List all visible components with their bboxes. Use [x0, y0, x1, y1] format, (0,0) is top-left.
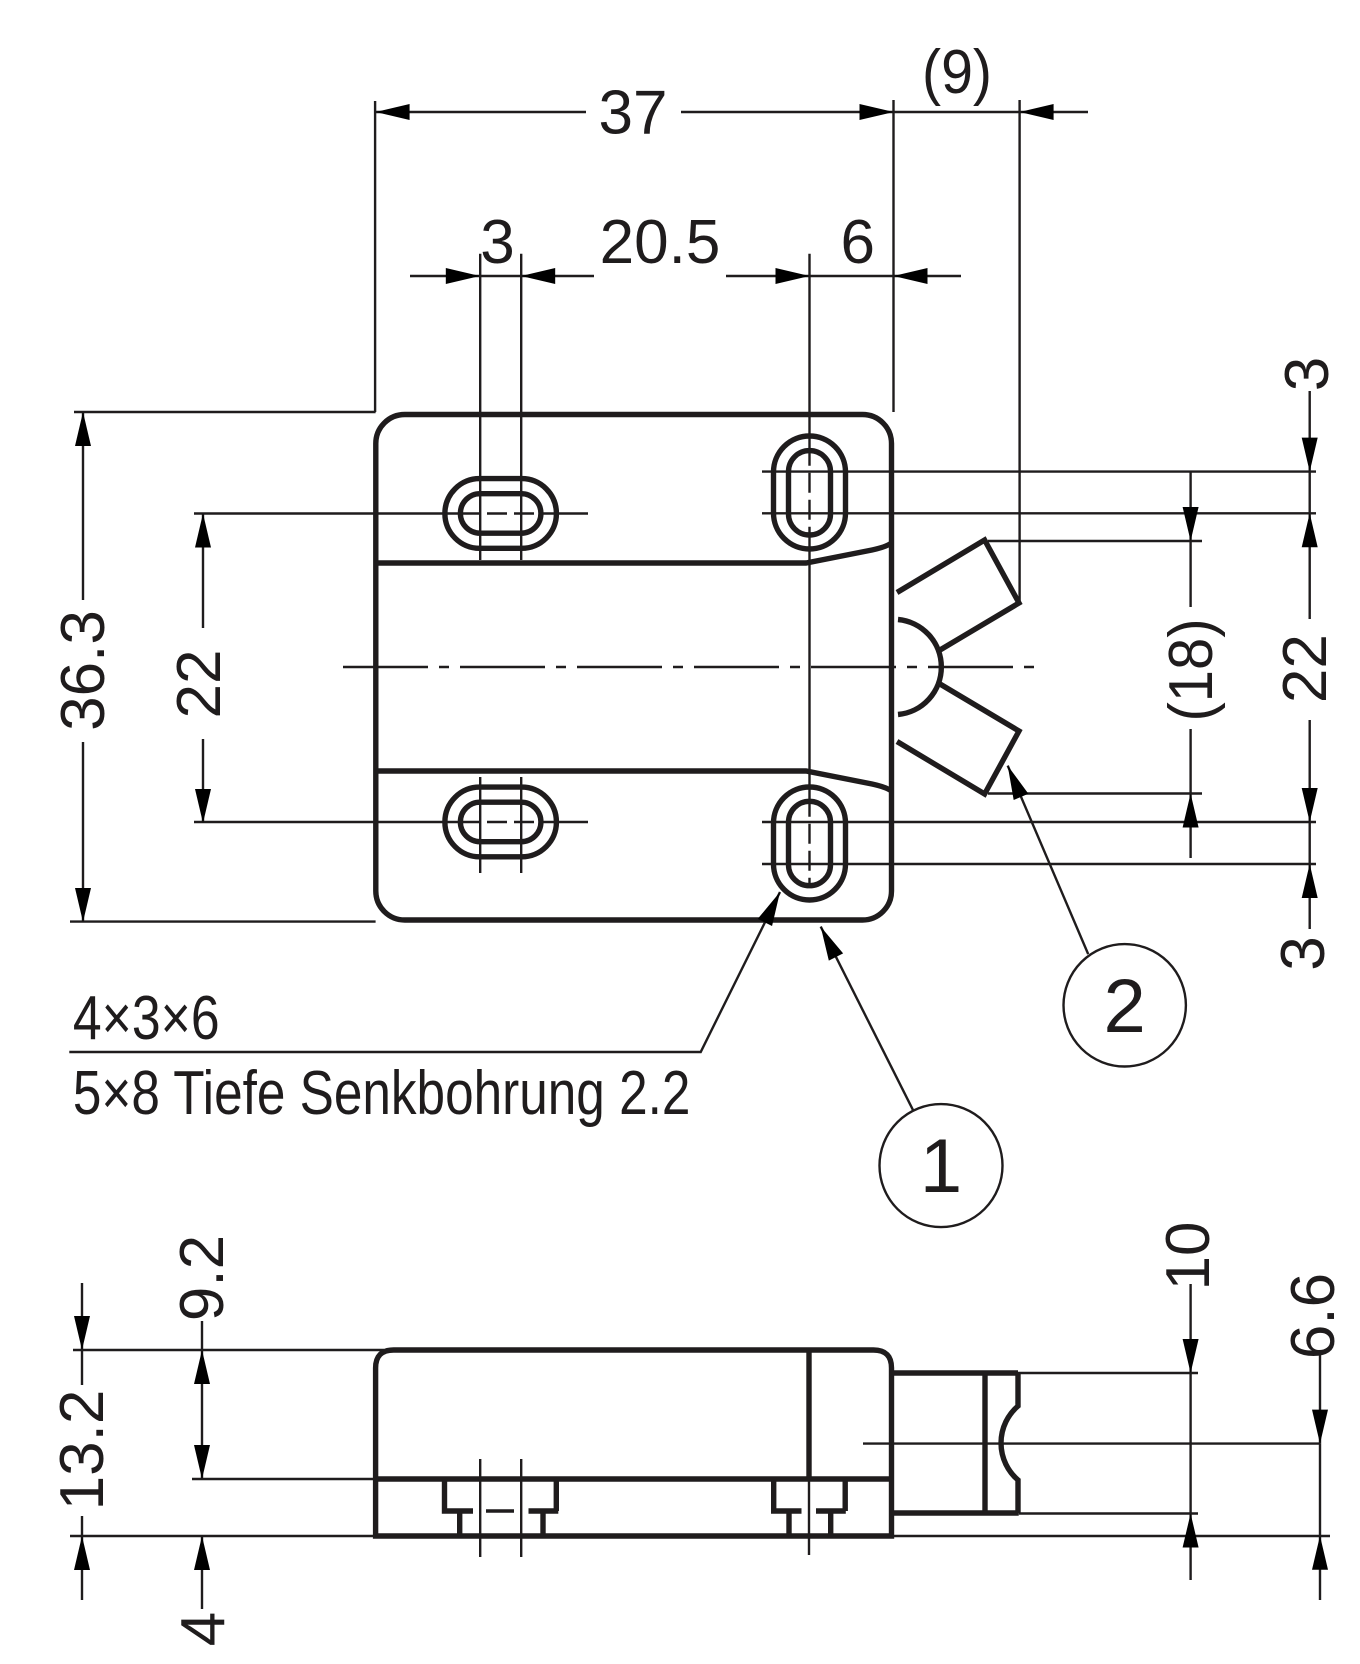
slot bottom-left inner	[460, 802, 541, 842]
left foot right hook	[529, 1479, 559, 1536]
foot centerline left b	[520, 1459, 522, 1557]
centerline left top oval	[194, 512, 588, 514]
slot top-right inner	[789, 451, 831, 535]
vertical centerline right slots	[808, 254, 810, 888]
dimension (9)	[894, 38, 1089, 120]
SIDEVIEW	[48, 1222, 1348, 1647]
svg-text:2: 2	[1104, 964, 1146, 1049]
slot bottom-left counterbore	[445, 787, 557, 857]
svg-text:3: 3	[1269, 936, 1338, 970]
svg-text:3: 3	[1273, 357, 1342, 391]
horizontal centerline	[343, 666, 1040, 668]
dimension 22 left	[165, 514, 234, 824]
dimension 3 top	[410, 208, 521, 284]
extension line slot cap left top	[479, 254, 481, 560]
svg-text:20.5: 20.5	[600, 208, 721, 277]
svg-text:1: 1	[920, 1124, 962, 1209]
body outline top view	[376, 415, 892, 921]
svg-text:9.2: 9.2	[168, 1235, 237, 1321]
callout circle 1	[814, 923, 1003, 1227]
dimension 20.5	[521, 208, 809, 284]
extension line side top	[73, 1349, 384, 1351]
extension line F	[762, 863, 1316, 865]
plunger right edge with concave notch	[1001, 1373, 1018, 1513]
latch boss arc	[898, 620, 941, 715]
body outline side view	[376, 1350, 892, 1536]
left foot left hook	[445, 1479, 474, 1511]
extension line A	[762, 470, 1316, 472]
svg-text:37: 37	[599, 79, 668, 148]
dimension 37	[376, 79, 894, 148]
dimension 3 right top	[1273, 357, 1342, 472]
extension line plunger bottom	[1019, 1512, 1198, 1514]
extension line 36.3 bottom	[70, 920, 376, 922]
extension line base top left	[192, 1478, 377, 1480]
plunger face line	[982, 1373, 987, 1513]
extension line bottom left	[70, 1535, 376, 1537]
extension line slot cap right top	[520, 254, 522, 560]
foot centerline left a	[479, 1459, 481, 1557]
svg-text:10: 10	[1154, 1222, 1223, 1291]
svg-text:13.2: 13.2	[48, 1390, 117, 1511]
channel bottom line	[376, 771, 892, 791]
right foot left hook	[774, 1479, 802, 1536]
svg-text:3: 3	[480, 208, 514, 277]
slot top-left inner	[460, 494, 541, 534]
svg-text:(18): (18)	[1157, 619, 1226, 722]
svg-text:4×3×6: 4×3×6	[73, 984, 220, 1053]
svg-text:(9): (9)	[922, 38, 992, 107]
dimension (18)	[1157, 472, 1226, 858]
plunger bottom	[894, 1510, 1019, 1515]
base top line	[376, 1476, 892, 1481]
svg-text:6.6: 6.6	[1279, 1273, 1348, 1359]
slot bottom-right counterbore	[774, 787, 846, 900]
dimension 22 right	[1271, 472, 1340, 864]
extension line body left top	[374, 101, 376, 412]
dimension 6	[810, 208, 962, 284]
svg-text:4: 4	[169, 1612, 238, 1646]
latch prong upper	[897, 540, 1019, 650]
extension line prong tip x	[1018, 100, 1020, 603]
right foot right hook	[816, 1479, 846, 1536]
dimension 3 right bottom	[1269, 864, 1338, 971]
extension line body right top	[892, 100, 894, 412]
slot top-right counterbore	[774, 436, 846, 549]
extension line bottom right	[892, 1535, 1331, 1537]
TOPVIEW	[49, 38, 1342, 1227]
channel top line	[376, 543, 892, 563]
slot top-left counterbore	[445, 479, 557, 549]
dimension 36.3	[49, 412, 118, 922]
extension line 36.3 top	[74, 411, 376, 413]
extension line D prong tip bottom	[988, 792, 1202, 794]
extension line E	[762, 821, 1316, 823]
extension line slot cap right bottom	[520, 777, 522, 873]
extension line B	[762, 512, 1316, 514]
callout circle 2	[1000, 762, 1186, 1066]
foot centerline right	[808, 1479, 810, 1555]
svg-text:22: 22	[165, 650, 234, 719]
centerline left bottom oval	[194, 821, 588, 823]
dimension 10	[1154, 1222, 1223, 1580]
plunger top	[894, 1370, 1018, 1375]
plunger centerline	[863, 1442, 1320, 1444]
dimension 6.6	[1279, 1273, 1348, 1600]
extension line plunger top	[1018, 1372, 1198, 1374]
dimension 4	[169, 1536, 238, 1646]
note leader line	[69, 888, 787, 1052]
dimension 13.2	[48, 1283, 117, 1600]
extension line slot cap left bottom	[479, 777, 481, 873]
svg-text:36.3: 36.3	[49, 610, 118, 731]
left foot hidden dash	[486, 1509, 514, 1512]
slot bottom-right inner	[789, 801, 831, 885]
svg-text:6: 6	[841, 208, 875, 277]
dimension 9.2	[168, 1235, 237, 1479]
svg-text:22: 22	[1271, 634, 1340, 703]
left foot left hook leg	[457, 1511, 462, 1536]
extension line C prong tip top	[988, 540, 1202, 542]
internal vertical line	[806, 1351, 811, 1479]
svg-text:5×8 Tiefe Senkbohrung 2.2: 5×8 Tiefe Senkbohrung 2.2	[73, 1059, 691, 1128]
latch prong lower	[897, 684, 1019, 794]
